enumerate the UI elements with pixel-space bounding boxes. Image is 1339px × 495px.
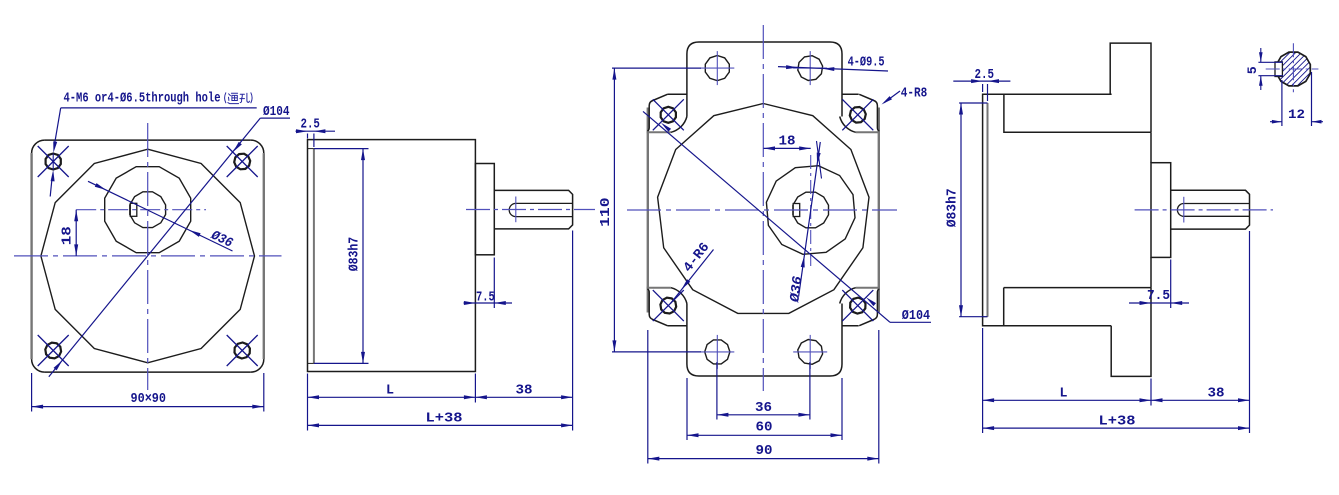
svg-text:5: 5 — [1245, 66, 1260, 74]
view3 vertical center line — [762, 25, 764, 391]
view2 dim L line — [308, 396, 476, 398]
svg-text:L+38: L+38 — [426, 412, 463, 427]
view2 keyway center mark — [515, 197, 517, 223]
svg-text:2.5: 2.5 — [301, 118, 320, 133]
view3 corner hole #1 — [661, 107, 676, 123]
view3 corner hole #4 — [850, 298, 865, 314]
view3 dim 60 line — [687, 434, 842, 436]
view3 dim 90 arrows — [648, 457, 660, 461]
svg-text:38: 38 — [1208, 386, 1225, 401]
view3 label 4-R8 arrow — [880, 96, 892, 106]
section hatch lines — [1249, 45, 1338, 93]
svg-text:L+38: L+38 — [1099, 414, 1136, 429]
view3 corner hole #1 45deg cross mark — [653, 99, 684, 130]
svg-text:110: 110 — [599, 197, 614, 227]
svg-text:Ø83h7: Ø83h7 — [945, 188, 960, 227]
view4 dim 38 line — [1151, 399, 1250, 401]
view1 flange square outline - horizontal edges — [45, 139, 251, 141]
svg-text:38: 38 — [516, 383, 533, 398]
view1 label 4-M6 leader arrow — [51, 141, 57, 153]
view1 dim 90x90 line — [32, 406, 264, 408]
view1 dim D104 arrows — [231, 142, 241, 153]
section dim 5 extension lines — [1258, 61, 1283, 63]
view1 boss circle D36 — [105, 167, 191, 253]
svg-text:7.5: 7.5 — [1147, 289, 1170, 304]
view3 shaft vertical center line — [810, 155, 812, 266]
svg-text:2.5: 2.5 — [975, 68, 995, 83]
view4 output boss outline — [1151, 163, 1171, 258]
view3 dim D104 arrows — [660, 121, 671, 131]
view3 bottom-right ear — [840, 288, 880, 326]
view3 top-left ear — [647, 94, 687, 132]
view1 flange square corner fillets — [32, 140, 264, 372]
view3 horizontal center line — [627, 209, 897, 211]
section horizontal center line — [1266, 68, 1319, 70]
view1 dim 90x90 arrows — [32, 405, 43, 409]
view3 dim 90 extension lines — [647, 330, 649, 464]
view1 mounting hole M6 #1 — [46, 154, 61, 170]
svg-text:60: 60 — [756, 420, 773, 435]
view3 dim 60 extension lines — [686, 378, 688, 440]
view4 dim 7.5 line — [1129, 302, 1189, 304]
view1 dim D104 line — [49, 118, 260, 377]
view4 rear plate face line — [1150, 132, 1152, 162]
view4 dim D83h7 arrows — [959, 103, 963, 115]
view4 dim D83h7 extension lines — [959, 102, 987, 104]
svg-text:Ø104: Ø104 — [902, 309, 930, 324]
view3 dim 110 line — [613, 68, 615, 352]
section dim 12 arrows — [1272, 120, 1282, 124]
view1 mounting hole M6 #2 — [234, 154, 250, 170]
svg-text:36: 36 — [755, 401, 772, 416]
section keyway notch — [1275, 62, 1282, 77]
view3 corner hole #2 45deg cross mark — [842, 99, 873, 130]
svg-text:18: 18 — [779, 135, 796, 150]
view3 shaft keyway notch — [793, 204, 800, 217]
view3 bottom tab outline — [687, 304, 842, 377]
svg-text:90: 90 — [756, 444, 773, 459]
view2 dim D83h7 arrows — [361, 149, 365, 161]
view3 dim D104 line — [643, 111, 890, 322]
view3 tab hole #3 center cross — [700, 351, 734, 353]
view3 dim D36 arrows — [815, 153, 821, 165]
view1 hole #3 45deg cross mark — [38, 335, 69, 366]
view1 spigot circle D83 — [41, 149, 255, 363]
view3 body top edge — [667, 93, 687, 95]
svg-text:18: 18 — [61, 226, 76, 245]
view3 tab hole D9.5 #3 — [705, 340, 730, 364]
view3 tab hole D9.5 #4 — [798, 340, 823, 365]
view4 dim 2.5 line — [953, 80, 1010, 82]
view1 mounting hole M6 #3 — [45, 343, 61, 359]
view3 top-right ear — [840, 94, 880, 132]
section dim 12 extension lines — [1281, 80, 1283, 126]
view3 dim 4-D9.5 arrows — [786, 65, 798, 69]
view3 shaft circle — [793, 192, 829, 228]
view3 dim 110 extension lines — [612, 67, 701, 69]
view1 label 4-M6 leader line — [54, 108, 61, 146]
view3 dim 60 arrows — [687, 433, 699, 437]
view3 tab hole D9.5 #1 — [705, 56, 729, 81]
view3 label 4-R6 leader — [671, 250, 714, 304]
view4 gearbox body outline — [983, 94, 1151, 326]
svg-text:L: L — [386, 383, 394, 398]
view3 tab hole #2 center cross — [793, 67, 827, 69]
view4 dim 38 arrows — [1151, 398, 1163, 402]
view2 dim 2.5 arrows — [296, 129, 308, 133]
view4 dim L arrows — [983, 398, 995, 402]
view4 bottom mounting tab — [1111, 288, 1151, 377]
view2 shaft outline — [494, 190, 572, 229]
view2 dim 38 arrows — [475, 395, 487, 399]
svg-text:Ø104: Ø104 — [263, 105, 290, 120]
view2 spigot shoulder line — [313, 149, 315, 364]
view2 dim 7.5 extension line — [493, 258, 495, 309]
view4 shaft outline — [1171, 190, 1250, 229]
svg-text:4-M6 or4-Ø6.5through hole: 4-M6 or4-Ø6.5through hole — [64, 92, 221, 107]
view1 mounting hole M6 #4 — [235, 343, 250, 359]
view2 dim 7.5 arrows — [464, 301, 476, 305]
view4 spigot shoulder line — [987, 103, 989, 317]
view1 shaft keyway notch — [130, 203, 137, 216]
view2 dim L arrows — [308, 395, 320, 399]
view3 dim 18 line — [764, 147, 811, 149]
view1 hole #2 45deg cross mark — [227, 146, 258, 177]
svg-text:L: L — [1060, 386, 1068, 401]
view4 dim L line — [983, 399, 1151, 401]
section shaft circle — [1277, 52, 1311, 86]
view1 hole diameter vertical line — [52, 154, 54, 170]
view3 spigot circle D83 — [658, 104, 869, 314]
svg-text:7.5: 7.5 — [476, 291, 495, 306]
svg-text:12: 12 — [1288, 107, 1305, 122]
view1 hole #1 45deg cross mark — [38, 146, 69, 177]
view3 dim 36 line — [717, 414, 810, 416]
svg-text:4-R8: 4-R8 — [901, 86, 928, 101]
view1 hole diameter lower arrow — [51, 170, 56, 182]
view1 dim 18 line — [75, 210, 77, 256]
view1 flange square outline - vertical edges — [30, 153, 32, 359]
view3 corner hole #3 — [660, 298, 676, 314]
view3 dim 36 arrows — [717, 413, 729, 417]
view3 flange side edges — [647, 108, 649, 313]
view2 shaft center line — [466, 209, 595, 211]
view4 dim L+38 line — [983, 427, 1250, 429]
view3 corner hole #3 45deg cross mark — [653, 290, 684, 321]
view3 dim 36 extension lines — [716, 362, 718, 420]
view4 dim extension lines bottom — [982, 328, 984, 433]
view3 label 4-R8 leader — [884, 91, 900, 103]
view1 dim 18 arrows — [74, 210, 78, 222]
section dim 5 arrows — [1259, 52, 1263, 62]
svg-text:Ø83h7: Ø83h7 — [348, 237, 363, 272]
view3 dim D36 line — [799, 142, 821, 297]
view3 boss circle D36 — [766, 166, 855, 255]
view3 dim 18 arrows — [764, 146, 776, 150]
view3 top tab outline — [687, 42, 842, 117]
view2 dim D83h7 extension lines — [314, 148, 369, 150]
view3 tab hole D9.5 #2 — [798, 56, 823, 81]
view3 body bottom edge — [667, 325, 687, 327]
view2 dim D83h7 line — [362, 149, 364, 364]
view2 dim extension lines bottom — [307, 374, 309, 431]
view1 horizontal center line — [14, 255, 282, 257]
view1 shaft horizontal center line — [76, 209, 206, 211]
svg-text:4-Ø9.5: 4-Ø9.5 — [848, 55, 885, 70]
view4 dim D83h7 line — [960, 103, 962, 317]
section dim 5 line — [1260, 48, 1262, 62]
view3 corner hole #2 — [850, 107, 866, 123]
view3 dim 4-D9.5 line — [778, 67, 888, 71]
view3 dim 90 line — [648, 458, 879, 460]
view2 spigot edge connectors — [308, 148, 314, 150]
view2 dim 38 line — [475, 396, 572, 398]
view4 dim L+38 arrows — [983, 426, 995, 430]
view2 dim L+38 arrows — [308, 423, 320, 427]
view4 dim 7.5 arrows — [1140, 301, 1152, 305]
section vertical center line — [1292, 43, 1294, 92]
view4 dim 2.5 extension lines — [982, 84, 984, 92]
view3 bottom-left ear — [647, 288, 687, 326]
view2 dim 2.5 line — [296, 130, 336, 132]
view3 dim 18 extension slant — [817, 141, 822, 179]
view4 spigot edge connectors — [983, 102, 988, 104]
view3 tab hole #4 center cross — [793, 351, 827, 353]
view1 vertical center line — [147, 123, 149, 390]
view1 dim D36 arrows — [95, 183, 107, 192]
view1 label CJK (through hole) glyphs — [225, 93, 253, 104]
view2 shaft keyway slot — [509, 203, 572, 216]
view2 dim 2.5 extension lines — [307, 134, 309, 139]
section dim 12 line — [1270, 121, 1282, 123]
view4 dim 2.5 arrows — [971, 79, 983, 83]
view4 keyway center mark — [1183, 197, 1185, 223]
view2 output boss outline — [475, 164, 494, 255]
view4 shaft keyway slot — [1177, 204, 1249, 217]
view2 dim L+38 line — [308, 424, 573, 426]
view3 corner hole #4 45deg cross mark — [842, 290, 873, 321]
view1 hole #4 45deg cross mark — [227, 335, 258, 366]
svg-text:90×90: 90×90 — [131, 392, 167, 407]
view4 top mounting tab — [1110, 43, 1151, 132]
view3 tab hole #1 center cross — [700, 67, 734, 69]
view1 dim 90x90 extension lines — [31, 373, 33, 412]
view3 dim 110 arrows — [612, 68, 616, 80]
view4 shaft center line — [1135, 209, 1273, 211]
view1 label 4-M6 leader underline — [61, 107, 257, 109]
view1 dim D36 line — [88, 181, 233, 251]
view3 label 4-R6 arrow — [680, 279, 690, 290]
view2 motor body outline — [308, 140, 476, 372]
view2 dim 7.5 line — [464, 302, 513, 304]
view1 shaft circle — [130, 192, 166, 228]
view4 dim 7.5 extension line — [1170, 260, 1172, 309]
